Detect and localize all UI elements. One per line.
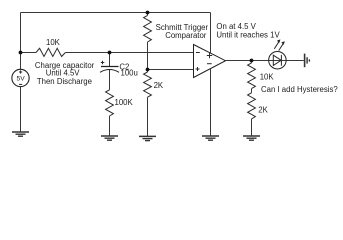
- svg-text:Can I add Hysteresis?: Can I add Hysteresis?: [261, 85, 338, 94]
- svg-text:Then Discharge: Then Discharge: [37, 77, 92, 86]
- svg-text:10K: 10K: [46, 38, 61, 47]
- svg-text:100K: 100K: [115, 98, 134, 107]
- svg-text:Until it reaches 1V: Until it reaches 1V: [216, 31, 280, 40]
- svg-text:2K: 2K: [258, 105, 268, 114]
- svg-text:10K: 10K: [260, 72, 275, 81]
- svg-text:100u: 100u: [121, 69, 138, 78]
- svg-text:5V: 5V: [17, 75, 26, 82]
- svg-text:2K: 2K: [154, 81, 164, 90]
- svg-text:Comparator: Comparator: [165, 31, 207, 40]
